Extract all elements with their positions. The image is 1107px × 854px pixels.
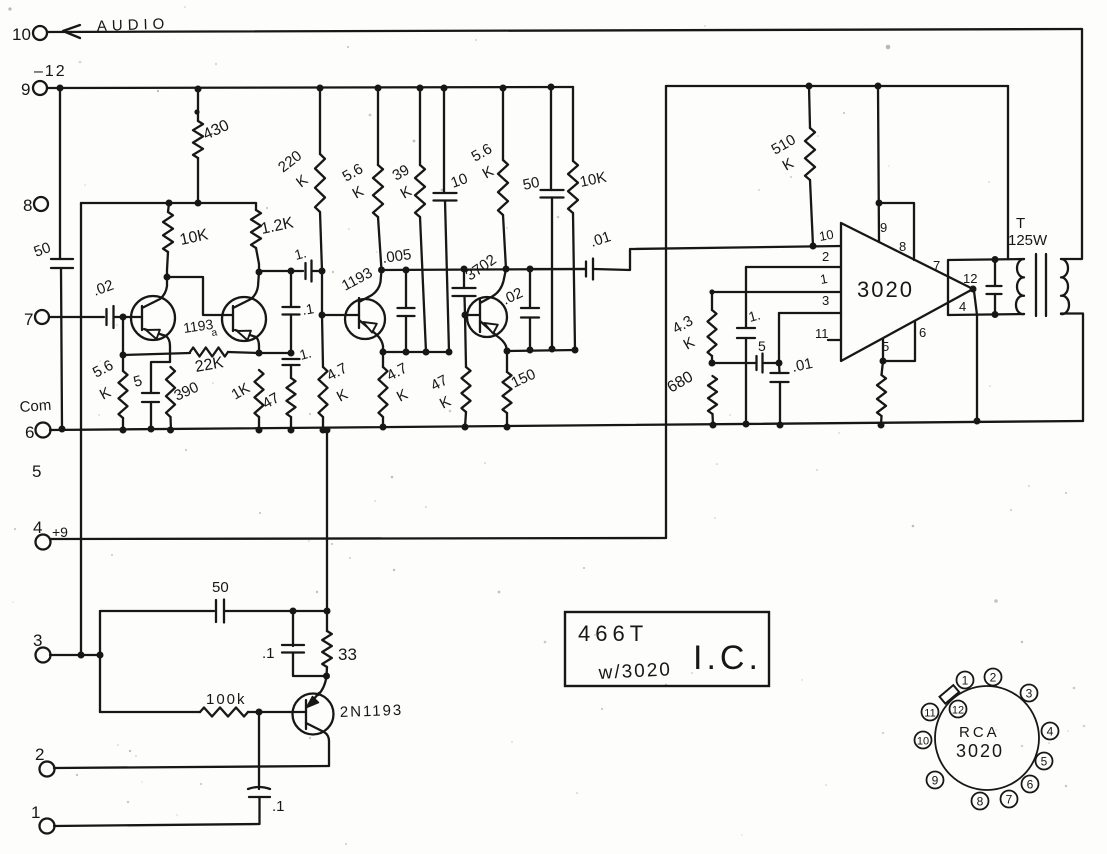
svg-text:7: 7 [1006, 793, 1013, 807]
terminal 6 [25, 423, 51, 443]
wire pin 4 to common [974, 291, 977, 421]
socket pin 5 [1036, 753, 1053, 770]
wire Q4 base node down [465, 315, 466, 367]
svg-text:33: 33 [338, 645, 357, 664]
svg-text:12: 12 [963, 271, 977, 286]
wire 10 cap column upper [443, 88, 445, 193]
label box 466T w/3020 I.C. [565, 612, 769, 686]
wire Q4 base lead [465, 314, 480, 316]
transistor Q2 (second 1193) [222, 272, 266, 353]
junction dots on signal line [403, 266, 534, 274]
wire secondary top [1061, 29, 1082, 259]
capacitor .02 (Q4) [521, 308, 539, 318]
svg-text:6: 6 [1027, 778, 1034, 792]
wire AUDIO output line [47, 29, 1082, 32]
wire Q3 collector signal line [382, 269, 586, 270]
resistor 4.7K (Q3 base bias lower) [319, 360, 351, 417]
svg-text:.1: .1 [272, 798, 285, 815]
resistor 390 (Q1 emitter) [166, 367, 201, 417]
wire 33 leads [325, 611, 328, 676]
socket pin 10 [915, 732, 932, 749]
wire Q3 base lead [322, 314, 359, 316]
resistor 100k [200, 691, 248, 717]
wire 50 cap top branch [100, 610, 214, 612]
svg-text:5: 5 [758, 338, 766, 354]
wire pin 3 column [778, 313, 781, 373]
wire 5.6K leads (Q4 load) [503, 88, 506, 269]
capacitor across primary [987, 260, 1002, 315]
svg-text:11: 11 [924, 708, 935, 720]
wire .5 cap right lead [763, 362, 779, 364]
wire Q3 base node down [322, 315, 323, 367]
socket pin 3 [1021, 685, 1038, 702]
svg-text:50: 50 [212, 579, 229, 596]
capacitor 5 (Q1 emitter bypass) [132, 372, 159, 402]
svg-text:2: 2 [35, 745, 44, 764]
svg-text:AUDIO: AUDIO [97, 15, 170, 35]
wire 47 leads [290, 365, 292, 430]
transistor Q3 1193 [345, 270, 385, 352]
wire secondary bottom [1061, 314, 1083, 422]
capacitor 1. (pin 2) [737, 306, 762, 338]
svg-text:11: 11 [815, 326, 829, 341]
junction 22K nodes [256, 350, 295, 357]
junction dots on +9 bus [806, 83, 882, 90]
wire -12 left rail lower [61, 268, 62, 429]
label T 125W [1008, 215, 1048, 249]
resistor 39 [390, 161, 426, 217]
wire .02 to Q1 base [114, 314, 142, 321]
resistor 5.6K (Q4 collector load) [469, 140, 509, 215]
svg-text:3: 3 [33, 631, 42, 650]
svg-text:I.C.: I.C. [693, 639, 762, 677]
wire .5 cap left lead [712, 362, 755, 364]
capacitor 1. (interstage coupling) [293, 244, 312, 281]
wire interstage step [167, 277, 233, 315]
wire Q1 emitter branch [151, 362, 170, 393]
socket pin 1 [957, 672, 974, 689]
wire collector column from common bus [326, 430, 328, 611]
wire 4.7K leads (Q3 emitter) [382, 352, 384, 427]
terminal 3 [33, 631, 51, 663]
wire 5.6K leads (Q3 load) [378, 88, 382, 270]
svg-text:8: 8 [899, 239, 906, 254]
wire 10K column lower [573, 213, 575, 350]
socket pin 4 [1042, 723, 1059, 740]
terminal 1 [31, 803, 55, 834]
wire 3702 cap column upper [463, 269, 465, 288]
wire Q5 emitter to terminal 2 [54, 766, 329, 768]
resistor 510K [769, 128, 816, 180]
label pin 5 [882, 339, 889, 354]
label 5 (unused terminal) [32, 462, 41, 481]
resistor 10K (Q1 collector load) [163, 212, 210, 252]
wire .1 cap column upper [290, 271, 292, 307]
svg-text:+9: +9 [52, 524, 68, 540]
wire output bracket pins 7-4 [948, 259, 1024, 315]
wire coupling cap to 220K node [312, 270, 322, 272]
wire Q3 emitter line [380, 349, 453, 356]
wire .1 cap lower lead [293, 653, 326, 677]
wire box top rail [81, 200, 256, 207]
svg-text:100k: 100k [206, 691, 247, 708]
resistor 10K (emitter line) [568, 161, 608, 213]
capacitor 5 (feedback) [757, 338, 767, 373]
wire 100k left lead [100, 711, 200, 713]
capacitor 50 (left rail bypass) [32, 239, 73, 268]
label pin 10 [818, 227, 835, 244]
junction Q3 base node [319, 312, 326, 319]
junction Q2 collector [256, 269, 263, 276]
wire .01 to op-amp pin 10 [594, 246, 841, 270]
capacitor .005 [398, 308, 415, 316]
wire 510K leads [809, 86, 813, 246]
wire 1K lower lead [258, 417, 260, 430]
svg-text:7: 7 [24, 310, 33, 329]
svg-text:6: 6 [25, 423, 34, 442]
wire Q2 collector line [259, 268, 303, 275]
wire base cap column [258, 712, 260, 789]
wire pin 1 line [712, 291, 841, 293]
capacitor .01 (pin 3) [771, 355, 815, 382]
label pin 6 [919, 325, 926, 340]
wire pin 3 line [779, 312, 841, 314]
svg-text:.1: .1 [262, 645, 275, 662]
wire box left side [80, 203, 82, 655]
transformer T secondary winding [1061, 259, 1069, 314]
wire pin 2 column lower [745, 338, 747, 424]
resistor 33 [322, 631, 357, 667]
capacitor .1 (Q2 collector) [283, 300, 316, 318]
resistor 430 [193, 117, 232, 158]
label pin 2 [822, 249, 829, 264]
junction 4.3K/680 node [709, 360, 716, 367]
junction 510K / pin 10 [810, 243, 817, 250]
resistor 47K (Q4 base bias) [428, 367, 471, 413]
wire 50 cap column lower [551, 198, 553, 350]
wire .005 column lower [405, 316, 407, 352]
transformer core [1036, 254, 1046, 316]
wire pin 2 column [745, 267, 747, 328]
wire base cap to terminal 1 [54, 797, 260, 826]
label pin 3 [822, 293, 829, 308]
wire .02 column lower [529, 318, 531, 351]
wire -12 left rail upper [59, 88, 61, 259]
wire 4.7K lower lead [322, 417, 324, 430]
junction Q3 collector [378, 267, 385, 274]
svg-text:8: 8 [23, 196, 32, 215]
label pin 1 [819, 271, 829, 287]
terminal 10 [12, 25, 47, 44]
junction pin 9 column [876, 200, 883, 207]
label AUDIO [97, 15, 170, 35]
socket pin 9 [927, 772, 944, 789]
svg-text:4: 4 [959, 299, 966, 314]
socket pin 7 [1001, 791, 1018, 808]
capacitor .1 (base, bottom) [248, 787, 285, 815]
svg-text:4: 4 [33, 518, 42, 537]
resistor 5.6K (Q1 emitter bias) [90, 357, 128, 418]
wire .01 left lead [530, 268, 585, 270]
wire pin 5 lead [882, 339, 884, 361]
svg-text:12: 12 [952, 705, 964, 717]
transistor Q4 3702 [467, 269, 507, 351]
wire 4.3K lower lead [711, 356, 713, 363]
capacitor .01 (output coupling) [586, 228, 613, 279]
wire .1 cap column lower [290, 315, 292, 354]
resistor pin 5 (unlabeled) [877, 375, 886, 416]
wire 430 lower lead [197, 158, 199, 203]
wire pin 6 loop [883, 321, 915, 361]
svg-text:9: 9 [932, 774, 939, 788]
wire primary bottom line [948, 314, 1024, 315]
resistor 1K (Q2 emitter) [229, 370, 264, 417]
socket pin 12 [950, 701, 967, 718]
wire Q4 emitter line [504, 346, 579, 355]
svg-text:1: 1 [962, 674, 969, 688]
wire pin5 resistor leads [881, 361, 883, 425]
resistor 150 (Q4 emitter) [503, 366, 539, 413]
svg-text:5: 5 [1041, 755, 1048, 769]
wire pin3 cap lower lead [779, 382, 781, 425]
svg-text:2N1193: 2N1193 [340, 702, 404, 721]
svg-text:2: 2 [822, 249, 829, 264]
label pin 4 [959, 299, 966, 314]
IC socket key tab [940, 685, 960, 703]
label pin 11 [815, 326, 829, 341]
label -12 [34, 63, 67, 80]
svg-text:10: 10 [917, 736, 929, 748]
junction dots on common bus [59, 418, 981, 434]
capacitor 1. (below 22K node) [283, 344, 314, 365]
wire 150 leads [506, 351, 508, 427]
wire 680 lower lead [711, 414, 714, 425]
svg-text:3020: 3020 [956, 741, 1004, 761]
label 3702 [463, 251, 500, 284]
terminal 2 [35, 745, 55, 777]
junction op-amp output pin 12 [970, 286, 977, 293]
wire 50 cap to collector node [225, 608, 331, 615]
wire +9 top bus [666, 85, 1008, 87]
wire Q1 base vertical [122, 317, 124, 355]
wire 39 leads [420, 88, 426, 352]
wire 5.6K leads [122, 355, 124, 430]
svg-text:9: 9 [880, 220, 887, 235]
svg-text:–12: –12 [34, 63, 67, 80]
capacitor coupling to Q4 base [453, 288, 476, 296]
svg-text:6: 6 [919, 325, 926, 340]
resistor 220K (Q3 base bias upper) [275, 147, 325, 212]
capacitor .02 (input coupling) [91, 277, 116, 328]
label 2N1193 [340, 702, 404, 721]
resistor 1.2K (Q2 collector load) [251, 210, 295, 248]
terminal 7 [24, 310, 49, 329]
svg-text:1: 1 [31, 803, 40, 822]
socket pin 11 [922, 704, 939, 721]
svg-text:Com: Com [19, 397, 52, 416]
wire 4.3K upper lead [709, 289, 714, 310]
svg-text:9: 9 [21, 80, 30, 99]
wire 390 lower lead [169, 417, 172, 430]
wire +9 to primary [1007, 86, 1009, 259]
IC socket outline RCA 3020 [935, 686, 1039, 790]
wire 220K leads [320, 88, 322, 271]
resistor 4.3K [670, 310, 717, 356]
svg-text:RCA: RCA [959, 724, 1000, 741]
junction base node [256, 709, 263, 716]
op-amp U1 3020 triangle [841, 223, 973, 361]
resistor 22K [190, 348, 228, 376]
wire 22K right lead [228, 352, 291, 353]
wire 3702 cap to Q4 base node [463, 296, 466, 315]
svg-text:466T: 466T [578, 621, 648, 646]
svg-text:10: 10 [12, 25, 31, 44]
junction pin 5 node [880, 358, 887, 365]
label pin 7 [933, 258, 940, 273]
wire pin 11 stub [828, 339, 841, 341]
transformer T primary winding [1016, 259, 1024, 314]
resistor 47 (Q2 emitter node) [260, 378, 296, 417]
label +9 [52, 524, 68, 540]
svg-text:3: 3 [822, 293, 829, 308]
svg-text:10: 10 [818, 227, 835, 244]
socket pin 2 [985, 669, 1002, 686]
resistor 5.6K (Q3 collector load) [340, 160, 384, 217]
terminal 4 [33, 518, 51, 550]
svg-text:3: 3 [1026, 687, 1033, 701]
capacitor 10 [434, 170, 471, 200]
junction pin3 column / .5 cap [776, 360, 783, 367]
wire 10K column upper (bus end) [572, 87, 574, 161]
wire pin 2 line [746, 266, 841, 268]
label Com [19, 397, 52, 416]
label 1193a [182, 316, 218, 339]
svg-text:w/3020: w/3020 [597, 659, 672, 684]
socket pin 6 [1022, 776, 1039, 793]
label .005 [381, 246, 412, 267]
socket pin 8 [972, 793, 989, 810]
wire .005 column upper [405, 270, 407, 308]
terminal 8 [23, 196, 48, 215]
junction Q1 base / 22K node [120, 352, 127, 359]
wire 22K left lead [123, 353, 190, 355]
resistor 680 [665, 368, 718, 414]
label pin 12 [963, 271, 977, 286]
svg-text:7: 7 [933, 258, 940, 273]
capacitor 50 (emitter line) [521, 174, 563, 198]
wire terminal 7 lead [49, 316, 104, 318]
wire Q1 collector to 10K [164, 274, 171, 281]
wire +9 vertical feed [665, 86, 667, 538]
wire 10K leads [167, 203, 169, 277]
wire pin 9 to +9 bus [878, 86, 879, 242]
wire 5 cap lower lead [150, 402, 152, 429]
wire .1 cap branch [292, 611, 294, 646]
svg-text:8: 8 [977, 795, 984, 809]
svg-text:50: 50 [521, 174, 541, 194]
wire -12 bus [47, 87, 573, 88]
capacitor .1 (bottom) [262, 645, 304, 662]
label 1193 (Q3) [339, 264, 375, 294]
wire pin 8 loop [879, 203, 914, 260]
wire left branch vertical [99, 611, 101, 712]
wire 50 cap column upper [550, 87, 552, 190]
wire 10 cap column lower [445, 201, 449, 353]
svg-text:125W: 125W [1008, 232, 1048, 249]
arrowhead on audio line [63, 25, 80, 38]
wire common bus [50, 421, 1083, 430]
transistor Q5 2N1193 [293, 693, 334, 766]
junction dots on -12 bus [57, 84, 555, 93]
wire 430 upper lead [194, 89, 199, 121]
wire 220K column to Q3 base node [321, 271, 323, 315]
capacitor 50 (bottom) [212, 579, 229, 623]
label pin 8 [899, 239, 906, 254]
svg-text:4: 4 [1047, 725, 1054, 739]
wire terminal 3 lead [50, 652, 104, 659]
svg-text:3020: 3020 [857, 277, 914, 302]
junction Q4 base node [462, 312, 469, 319]
svg-text:2: 2 [990, 671, 997, 685]
wire 47K lower lead [465, 412, 466, 427]
junction 220K / coupling node [319, 268, 326, 275]
junction 33 bottom [323, 673, 330, 680]
transistor Q1 1193 [131, 277, 175, 362]
wire .02 column upper [529, 269, 531, 308]
label pin 9 [880, 220, 887, 235]
svg-text:5: 5 [32, 462, 41, 481]
svg-text:T: T [1016, 215, 1025, 232]
wire 1.2K leads [256, 203, 259, 272]
wire 100k to base [248, 711, 306, 713]
wire Q5 collector lead [318, 676, 327, 695]
label .02 (Q4) [500, 284, 526, 308]
wire +9 line from terminal 4 [50, 538, 666, 539]
terminal 9 [21, 80, 47, 99]
resistor 4.7K (Q3 emitter) [379, 360, 411, 417]
junction primary top/bottom [992, 256, 999, 318]
